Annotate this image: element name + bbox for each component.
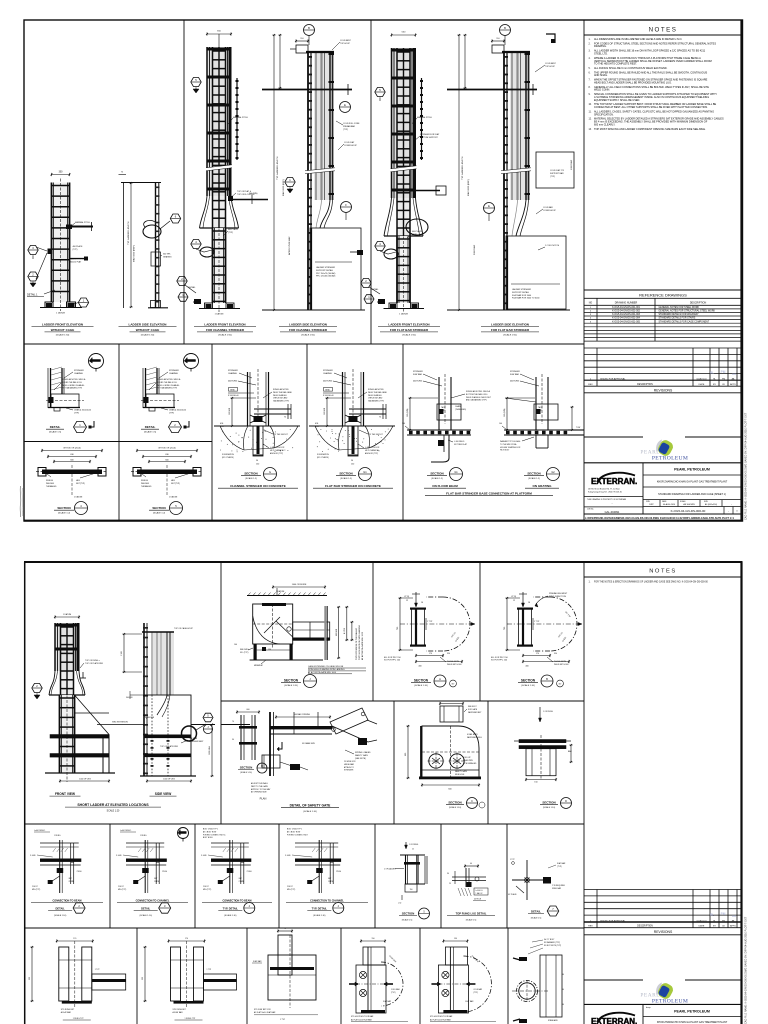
svg-text:RL: RL [710,913,714,917]
svg-text:700: 700 [397,627,399,630]
svg-text:HILTI CHEMICAL: HILTI CHEMICAL [365,449,379,452]
svg-text:DRAWING.: DRAWING. [594,45,607,48]
svg-text:ON GRATING: ON GRATING [533,484,553,488]
svg-text:(SCALE 1:10): (SCALE 1:10) [449,806,462,809]
svg-text:350: 350 [447,653,450,655]
svg-text:ADJUST THIS WALL: ADJUST THIS WALL [251,782,268,785]
svg-text:SECTION: SECTION [527,472,540,476]
svg-text:SPECIFICATION.: SPECIFICATION. [594,113,614,116]
flat bar stringer platform connection cell [402,371,584,496]
svg-text:W/ ROD OR (20x6): W/ ROD OR (20x6) [63,448,81,450]
svg-text:30: 30 [562,1004,564,1006]
svg-text:STRINGER: STRINGER [344,770,354,772]
ladder F note top of plate [550,169,564,178]
svg-text:REVISIONS: REVISIONS [654,388,673,392]
svg-text:CHANNEL: CHANNEL [74,372,83,375]
svg-text:THREADED: THREADED [46,485,57,488]
svg-text:P1050: P1050 [77,871,82,873]
svg-text:BOLT 2 M16 TYP 1: BOLT 2 M16 TYP 1 [287,829,302,831]
svg-text:STD RUNG BKT: STD RUNG BKT [173,1009,187,1011]
svg-text:RUNGS AS NOTED: RUNGS AS NOTED [368,388,384,391]
svg-text:FLAT BAR: FLAT BAR [557,862,566,865]
detail bubble at ladder B [143,220,170,238]
svg-text:300: 300 [29,977,31,980]
svg-text:KHOR ZHARAICHO KHAN GA PLANT G: KHOR ZHARAICHO KHAN GA PLANT GAS TREATME… [657,481,728,484]
svg-text:A1 FLAT 50x10 FLAT BAR: A1 FLAT 50x10 FLAT BAR [351,1019,372,1022]
svg-text:100: 100 [234,644,237,646]
svg-text:TOP? HIGH ENOUGH WITH LANDING: TOP? HIGH ENOUGH WITH LANDING [358,624,361,660]
svg-text:A1 FLAT 50x10 FLAT BAR: A1 FLAT 50x10 FLAT BAR [254,1011,276,1014]
ladder B annotation 300 thk [161,254,173,259]
ladder E title [378,323,440,337]
svg-text:ISSUED FOR APPROVAL: ISSUED FOR APPROVAL [600,377,626,380]
svg-text:16 Elm Street Broken Rd. 77,: 16 Elm Street Broken Rd. 77, 1st floor [588,488,620,491]
svg-text:(SCALE 1:50): (SCALE 1:50) [141,334,155,337]
svg-text:SECTION: SECTION [542,801,555,805]
svg-text:SECTION: SECTION [402,912,414,916]
svg-text:AT OPENING SIDE: AT OPENING SIDE [251,791,267,794]
svg-text:1 OF RUNG: 1 OF RUNG [409,844,419,846]
svg-text:PEARL PETROLEUM: PEARL PETROLEUM [674,468,710,472]
svg-text:COLD FLAT 275: COLD FLAT 275 [550,169,564,172]
svg-text:75: 75 [379,417,381,419]
svg-text:Sulaymaniyah Iraq Tel: +964 7: Sulaymaniyah Iraq Tel: +964 770 123 45 [588,490,622,493]
svg-text:DESCRIPTION: DESCRIPTION [690,302,707,305]
svg-text:LADDER STRINGER: LADDER STRINGER [316,266,336,269]
detail of safety gate [232,708,377,813]
svg-text:L:\DFS\PROJ\K-OG5\04\GN\DS\K-O: L:\DFS\PROJ\K-OG5\04\GN\DS\K-OG5-04-GN-D… [585,516,734,520]
svg-text:TO THE HEIGHTS COMPLETE REST.: TO THE HEIGHTS COMPLETE REST. [594,63,637,66]
svg-text:FLAT BAR: FLAT BAR [253,960,262,963]
svg-text:GALVANIZED (TYP): GALVANIZED (TYP) [368,400,384,403]
svg-text:WITH HIGH CLEARING WITH LANDIN: WITH HIGH CLEARING WITH LANDING [308,668,345,671]
svg-text:(TYP): (TYP) [228,232,233,234]
svg-text:(SCALE 1:20): (SCALE 1:20) [284,684,298,687]
svg-text:MAX 6000 (REF): MAX 6000 (REF) [133,245,136,262]
svg-text:G: G [269,470,271,474]
callout hexagon at ladder D lower [285,178,295,194]
svg-text:AT 1 BOLT ROW: AT 1 BOLT ROW [203,830,217,833]
svg-text:NUT(TYP): NUT(TYP) [171,483,180,485]
svg-text:HOT GALVANIZED (TYP): HOT GALVANIZED (TYP) [157,387,177,390]
section D cell [514,707,573,809]
svg-text:300 MIN: 300 MIN [126,697,133,699]
svg-text:WELD IN ANGLE: WELD IN ANGLE [273,394,287,397]
svg-text:CHANNEL: CHANNEL [228,372,237,375]
svg-text:DETAIL: DETAIL [188,286,196,289]
svg-text:5000 MAX: 5000 MAX [473,244,476,255]
svg-text:MINIMUM: MINIMUM [254,665,263,667]
ladder side elevation without cage [119,172,169,309]
svg-text:LADDER FRONT ELEVATION: LADDER FRONT ELEVATION [388,323,429,327]
svg-text:1 TYP: 1 TYP [534,621,540,623]
section A cell [384,592,475,687]
ladder front elevation without cage [36,172,93,312]
svg-text:A1 (841x594): A1 (841x594) [705,503,717,506]
svg-text:FOLD UP: FOLD UP [463,757,471,759]
title block sheet 1 [584,463,742,514]
svg-text:FOR BKT CONNECT NUT &: FOR BKT CONNECT NUT & [203,834,226,836]
svg-text:300 THK: 300 THK [163,254,171,256]
svg-text:STANDARD DRAWING FOR LADDER AN: STANDARD DRAWING FOR LADDER AND CAGE (SH… [658,493,726,496]
svg-text:PFC 125x65 (300 AV): PFC 125x65 (300 AV) [316,275,336,278]
svg-text:D 1440: D 1440 [116,855,122,857]
svg-text:04-AUG-10: 04-AUG-10 [696,377,707,380]
svg-text:CHAN.& 100x50x10: CHAN.& 100x50x10 [74,409,91,412]
svg-text:ATTACH TO: ATTACH TO [344,766,354,769]
notes list sheet 2 [589,580,709,583]
svg-text:NOTES: NOTES [649,569,676,575]
svg-text:NOTES: NOTES [649,27,678,34]
svg-text:PETROLEUM: PETROLEUM [652,455,688,461]
svg-text:AS SHOWN: AS SHOWN [683,503,695,506]
svg-text:D 1440: D 1440 [285,855,291,857]
svg-text:(SCALE 1:5): (SCALE 1:5) [466,919,477,922]
svg-text:CONNECTION TO BEAM: CONNECTION TO BEAM [223,900,252,903]
drawing number vertical margin text sheet 2 [745,916,748,1024]
detail cell right sheet 2 [508,859,566,920]
svg-text:(SCALE 1:10): (SCALE 1:10) [240,771,252,774]
svg-text:170: 170 [536,653,539,655]
svg-text:(SCALE 1:5): (SCALE 1:5) [431,477,443,480]
svg-text:1 OF RUNG: 1 OF RUNG [543,711,553,713]
short ladder detail hexagon right [203,713,213,733]
svg-text:GALVANIZED (TYP): GALVANIZED (TYP) [273,400,289,403]
ladder E annotation 400 place [407,230,423,238]
svg-text:6 RAIL BKTS: 6 RAIL BKTS [467,733,478,736]
svg-text:ON FLOOR BEAM: ON FLOOR BEAM [432,484,458,488]
section G channel stringer on concrete cell [214,369,300,488]
svg-text:FLAT BAR FOR 3000: FLAT BAR FOR 3000 [512,294,532,297]
svg-text:FOUNDATION: FOUNDATION [222,453,234,456]
svg-text:1 DATUM: 1 DATUM [56,312,65,315]
svg-text:D 1440: D 1440 [201,855,207,857]
svg-text:1000 OF LEG: 1000 OF LEG [79,778,91,780]
svg-text:25: 25 [412,849,414,851]
ladder F q tick note [538,245,560,250]
svg-text:1000 OR MORE: 1000 OR MORE [292,584,307,586]
svg-text:1 RUNG: 1 RUNG [54,835,61,837]
sheet 2 border frame [24,562,743,1024]
svg-text:1 RUNG: 1 RUNG [140,835,147,837]
svg-text:HILTI BOLT: HILTI BOLT [500,450,510,452]
svg-text:200 (MIN): 200 (MIN) [249,193,258,195]
svg-text:DETAIL: DETAIL [371,288,379,291]
ladder B title [119,323,177,337]
short ladder side detail circle [182,724,207,741]
svg-text:WELDED: WELDED [46,483,55,485]
svg-text:STD RUNG BKT: STD RUNG BKT [61,1009,75,1011]
svg-text:2 BOLT: 2 BOLT [32,886,38,888]
svg-text:SUPPORT BAR: SUPPORT BAR [550,172,564,175]
svg-text:30: 30 [562,989,564,991]
svg-text:FLAT BAR STRINGER BASE CONNECT: FLAT BAR STRINGER BASE CONNECTION AT PLA… [446,492,532,496]
svg-text:DETAIL: DETAIL [145,425,156,429]
svg-text:600 MIN: 600 MIN [336,628,338,636]
svg-text:PETROLEUM: PETROLEUM [652,998,688,1004]
bottom detail cell 3 [252,928,318,1021]
svg-text:T-HOLE NUTS: T-HOLE NUTS [554,661,567,663]
svg-text:M16 (TYP): M16 (TYP) [287,889,296,891]
svg-text:MAX 6000 (REF): MAX 6000 (REF) [467,179,470,196]
svg-text:B: B [308,26,310,30]
svg-text:600: 600 [405,753,407,756]
svg-text:ROUND THE RAIL 6 FILL: ROUND THE RAIL 6 FILL [62,381,82,384]
connection to channel detail 3 cell [116,828,189,918]
ladder D bottom right tick [350,250,363,255]
svg-text:2 BOLT: 2 BOLT [287,886,293,888]
svg-text:400: 400 [525,666,528,668]
svg-text:APROX 2500 MAX: APROX 2500 MAX [288,236,291,255]
svg-text:1 500: 1 500 [121,651,123,656]
drawing number vertical margin text sheet 1 [745,412,748,520]
svg-text:SECTION: SECTION [152,506,165,510]
svg-text:150 MIN: 150 MIN [324,407,326,415]
svg-text:1 TYP: 1 TYP [427,621,433,623]
svg-text:RUNGS AS NOTED. WELD A: RUNGS AS NOTED. WELD A [62,378,86,381]
svg-text:SECTION: SECTION [57,506,70,510]
svg-text:SCALE 1:20: SCALE 1:20 [107,810,120,813]
svg-text:TOP OF PLATFORM: TOP OF PLATFORM [85,662,103,665]
svg-text:(SCALE 1:10): (SCALE 1:10) [303,810,317,813]
svg-text:SCALE: SCALE [680,500,686,503]
ladder F note detail right [536,206,557,214]
svg-text:No "U" BOLT: No "U" BOLT [544,939,555,941]
svg-text:1 RUNG TYP: 1 RUNG TYP [73,1018,85,1020]
svg-text:FLAT BAR: FLAT BAR [465,1000,474,1003]
ladder D note cold rolled zone [336,121,360,131]
svg-text:THE UPPER ROUND SHALL BE RAILE: THE UPPER ROUND SHALL BE RAILED AND ALL … [594,71,708,74]
svg-text:RUNGS AS NOTED. WELD A: RUNGS AS NOTED. WELD A [157,378,181,381]
svg-text:(SCALE 1:5): (SCALE 1:5) [402,919,413,922]
notes list sheet 1 [589,38,724,131]
svg-text:LADDER SIDE ELEVATION: LADDER SIDE ELEVATION [289,323,327,327]
svg-text:11.: 11. [589,112,592,114]
svg-text:1 DATUM: 1 DATUM [63,613,72,616]
ladder A annotation maximal pitch [70,221,90,227]
svg-text:SECTION: SECTION [448,801,461,805]
svg-text:FOR FLAT BAR STRINGER: FOR FLAT BAR STRINGER [390,328,429,332]
svg-text:150: 150 [454,938,457,940]
svg-text:CONNECTION TO CHANNEL: CONNECTION TO CHANNEL [136,900,170,903]
svg-text:COLD ROLL ZONE: COLD ROLL ZONE [343,123,360,125]
svg-text:(SCALE 1:10): (SCALE 1:10) [224,914,237,917]
svg-text:STRINGER: STRINGER [323,370,333,372]
svg-text:FIXED BAR: FIXED BAR [552,887,562,890]
svg-text:FLAT BAR STRINGER ON CONCRETE: FLAT BAR STRINGER ON CONCRETE [325,484,381,488]
svg-text:M.E.: M.E. [315,423,319,425]
svg-text:FOR BKT CONNECT NUT: FOR BKT CONNECT NUT [287,834,309,836]
svg-text:CHAN.& 100x50x10: CHAN.& 100x50x10 [169,409,186,412]
svg-text:L-100 HOLE FOR: L-100 HOLE FOR [270,447,285,449]
svg-text:50: 50 [256,460,258,462]
svg-text:CONNECTION TO BEAM: CONNECTION TO BEAM [53,900,82,903]
svg-text:CAD FILE NAME: K-OG5-04-GN-DS-: CAD FILE NAME: K-OG5-04-GN-DS-000-00.DWG… [745,916,748,1024]
svg-text:TYP. DETAIL: TYP. DETAIL [312,907,328,911]
svg-text:M16 (TYP): M16 (TYP) [118,889,127,891]
svg-text:TOP EXTENSION OF THE RAIL AT: TOP EXTENSION OF THE RAIL AT [355,627,358,660]
svg-text:SECTION: SECTION [240,766,252,770]
svg-text:150: 150 [351,464,354,466]
ladder D grid bubble [341,202,352,221]
svg-text:REV: REV [588,926,593,928]
svg-text:50: 50 [351,460,353,462]
callout hexagon at ladder B [170,214,180,223]
svg-text:(TYP): (TYP) [391,992,396,994]
svg-text:MAXIMAL PITCH: MAXIMAL PITCH [233,116,248,119]
svg-text:FLAT BAR: FLAT BAR [413,373,422,376]
svg-text:P1050: P1050 [162,871,167,873]
svg-text:SIDE VIEW: SIDE VIEW [155,792,171,796]
svg-text:25 THK GROUT: 25 THK GROUT [369,434,384,436]
ladder C long arm [231,193,268,204]
svg-text:M16 (TYP): M16 (TYP) [203,889,212,891]
svg-text:-: - [612,502,613,505]
svg-text:WITHOUT CAGE: WITHOUT CAGE [136,328,160,332]
svg-text:SEE DWG: SEE DWG [240,649,249,651]
svg-text:(SCALE 1:2): (SCALE 1:2) [58,512,71,515]
svg-text:FOR FLAT BAR STRINGER: FOR FLAT BAR STRINGER [491,328,530,332]
svg-text:400 RUNG: 400 RUNG [323,381,333,383]
callout hexagon 1 at ladder A base [74,298,89,307]
svg-text:(SCALE 1:5): (SCALE 1:5) [49,431,62,434]
ladder D top right note [332,40,352,50]
svg-text:1 RUNG TYP: 1 RUNG TYP [185,1018,197,1020]
svg-text:TOP MOST SPACING AND LADDER CO: TOP MOST SPACING AND LADDER COMPONENT OP… [594,128,706,131]
svg-text:300: 300 [142,977,144,980]
ladder side elevation for flat bar stringer [447,34,574,311]
svg-text:(SCALE 1:50): (SCALE 1:50) [218,334,232,337]
detail 1 cell drawing [46,354,104,434]
ladder E arm [416,186,447,195]
svg-text:WELD THE RAIL 6 AND: WELD THE RAIL 6 AND [273,391,293,394]
svg-text:LADDER STRINGER: LADDER STRINGER [70,258,89,261]
svg-text:1000 MAX: 1000 MAX [570,159,573,170]
svg-text:GENERALLY ALL FIELD CONNECTION: GENERALLY ALL FIELD CONNECTIONS SHALL BE… [594,86,709,89]
svg-text:STRINGER: STRINGER [169,370,179,372]
svg-text:NO. (TYP): NO. (TYP) [240,652,249,654]
svg-text:RUNGS: RUNGS [141,480,149,482]
svg-text:M.E.: M.E. [220,423,224,425]
svg-text:SECTION: SECTION [521,679,536,683]
svg-text:150: 150 [410,889,413,891]
svg-text:B07: B07 [559,684,562,686]
svg-text:SECTION: SECTION [284,679,299,683]
svg-text:40 HOLE: 40 HOLE [474,899,482,901]
svg-text:(TYP): (TYP) [169,412,174,414]
svg-text:1 COLD NOTCH: 1 COLD NOTCH [545,245,560,247]
svg-text:SECTION: SECTION [244,472,257,476]
svg-text:CHECK NUT AND: CHECK NUT AND [368,397,383,400]
ladder C annotation top of plate [228,190,255,201]
svg-text:400 PLACE: 400 PLACE [228,228,239,231]
svg-text:150: 150 [256,464,259,466]
svg-text:CK: CK [722,926,726,928]
svg-text:COLD BENT: COLD BENT [545,63,557,65]
svg-text:04-AUG-10: 04-AUG-10 [696,919,707,922]
svg-text:A: A [439,677,441,681]
svg-text:MIN. EXTENSION: MIN. EXTENSION [112,722,128,724]
callout hexagon 2 at ladder A [28,272,38,287]
svg-text:G1: G1 [363,470,367,474]
svg-text:25 WIDE FOR: 25 WIDE FOR [344,761,356,763]
svg-text:SEE BOLT: SEE BOLT [468,706,478,708]
left margin registration marks sheet 1 [20,486,22,517]
sheet 1 panel grid lines [24,20,584,521]
svg-text:COVER HOOP: COVER HOOP [543,210,557,212]
plot file path strip sheet 1 [585,516,734,520]
callout hexagon 4 at ladder C lower [191,240,214,258]
svg-text:TOP OF PLATFORM: TOP OF PLATFORM [160,745,178,748]
svg-text:REFERENCE DRAWINGS: REFERENCE DRAWINGS [639,292,687,297]
svg-text:2 BOLT: 2 BOLT [203,886,209,888]
ladder F title [481,323,539,337]
svg-text:HEAD BOLT AND LADDER SHALL BE: HEAD BOLT AND LADDER SHALL BE PROVIDED M… [594,82,672,85]
svg-text:BOTTOM SUPPORT: BOTTOM SUPPORT [420,137,439,139]
bottom detail cell 1 [29,938,126,1020]
svg-text:(SCALE 1:10): (SCALE 1:10) [521,684,535,687]
svg-text:P1050: P1050 [247,871,252,873]
svg-text:25 THK GROUT: 25 THK GROUT [274,434,289,436]
svg-text:(THREADED): (THREADED) [455,408,466,411]
notes panel title sheet 2 [584,569,742,578]
svg-text:HILTI CHEMICAL: HILTI CHEMICAL [270,449,284,452]
svg-text:APP'D: APP'D [730,383,736,386]
svg-text:150 (MIN): 150 (MIN) [407,408,409,417]
svg-text:STRINGER: STRINGER [510,371,520,373]
svg-text:CAD FILE NAME: K-OG5-04-GN-DS-: CAD FILE NAME: K-OG5-04-GN-DS-000-00.DWG… [745,412,748,520]
ladder D flat bar note [338,141,358,150]
svg-text:COLD BAR: COLD BAR [543,206,553,209]
svg-text:FOR CODES OF STRUCTURAL STEEL: FOR CODES OF STRUCTURAL STEEL SECTIONS A… [594,42,716,45]
svg-text:DATE: DATE [699,925,705,928]
svg-text:COLD FLAT: COLD FLAT [344,141,355,144]
svg-text:E: E [488,204,490,208]
svg-text:900 MAX OPENING: 900 MAX OPENING [294,713,311,716]
svg-text:LADDER STRINGER: LADDER STRINGER [512,288,532,291]
svg-text:THIS DRAWING IS PROPERTY OF EX: THIS DRAWING IS PROPERTY OF EXTERRAN [587,498,627,501]
section 4 cell drawing [36,448,108,515]
ladder F grid circle mid [484,203,495,222]
callout hexagon at short ladder [32,684,42,700]
svg-text:PART TO THE GATE: PART TO THE GATE [251,785,269,788]
short ladder front view label [50,792,81,796]
svg-text:STD FLAT BKT FOR: STD FLAT BKT FOR [254,1008,271,1011]
svg-text:12: 12 [513,600,515,602]
svg-text:B: B [504,26,506,30]
svg-text:BOLT 2 M16 TYP 1: BOLT 2 M16 TYP 1 [203,829,218,831]
top rung lug detail cell [447,863,495,922]
svg-text:L2",N): L2",N) [511,596,516,598]
section G1 flat bar stringer on concrete cell [309,369,395,488]
ladder C title [194,323,256,337]
svg-text:TYP. LADDER LENGTH: TYP. LADDER LENGTH [127,221,130,245]
svg-text:HOLE AT GRATING FOR: HOLE AT GRATING FOR [500,446,521,449]
svg-text:(SCALE 1:5): (SCALE 1:5) [531,917,542,920]
svg-text:P1050: P1050 [336,871,341,873]
svg-text:(BY OTHERS): (BY OTHERS) [222,457,234,459]
svg-text:STRINGER FOR FLAT: STRINGER FOR FLAT [420,133,440,136]
svg-text:FASTENER HOLE: FASTENER HOLE [467,736,483,739]
short ladder front view [45,613,115,783]
svg-text:SUPPORT DETAIL: SUPPORT DETAIL [512,291,530,294]
svg-text:TOP HOOP: TOP HOOP [545,66,556,68]
callout hexagon at ladder C base [177,277,196,294]
svg-text:A FLAT BAR: A FLAT BAR [173,1011,184,1014]
svg-text:1000 OF LEG: 1000 OF LEG [163,778,175,780]
svg-text:GRATING: GRATING [163,255,172,258]
svg-text:350: 350 [554,653,557,655]
